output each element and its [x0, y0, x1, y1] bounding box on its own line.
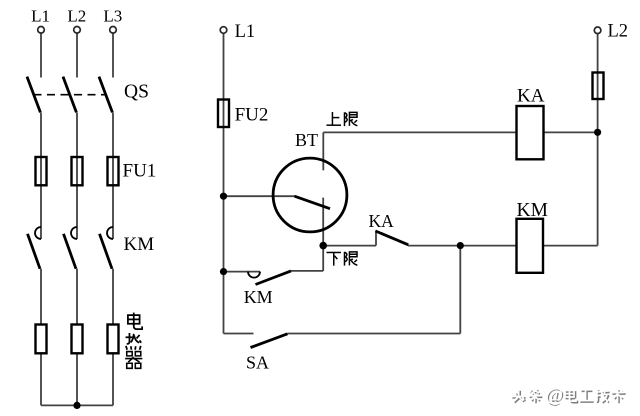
svg-text:KA: KA — [369, 211, 395, 231]
svg-text:SA: SA — [246, 353, 269, 373]
svg-text:FU1: FU1 — [123, 161, 157, 182]
svg-text:L1: L1 — [31, 7, 50, 26]
svg-text:L1: L1 — [235, 22, 256, 42]
svg-text:BT: BT — [295, 130, 318, 150]
svg-text:L3: L3 — [103, 7, 122, 26]
svg-text:FU2: FU2 — [235, 105, 269, 126]
svg-text:L2: L2 — [67, 7, 86, 26]
svg-text:KA: KA — [517, 86, 545, 107]
svg-text:KM: KM — [517, 200, 548, 221]
svg-text:KM: KM — [124, 234, 155, 255]
svg-text:@: @ — [546, 385, 564, 406]
svg-text:QS: QS — [124, 82, 149, 103]
svg-text:L2: L2 — [608, 22, 629, 42]
svg-text:KM: KM — [244, 287, 273, 307]
